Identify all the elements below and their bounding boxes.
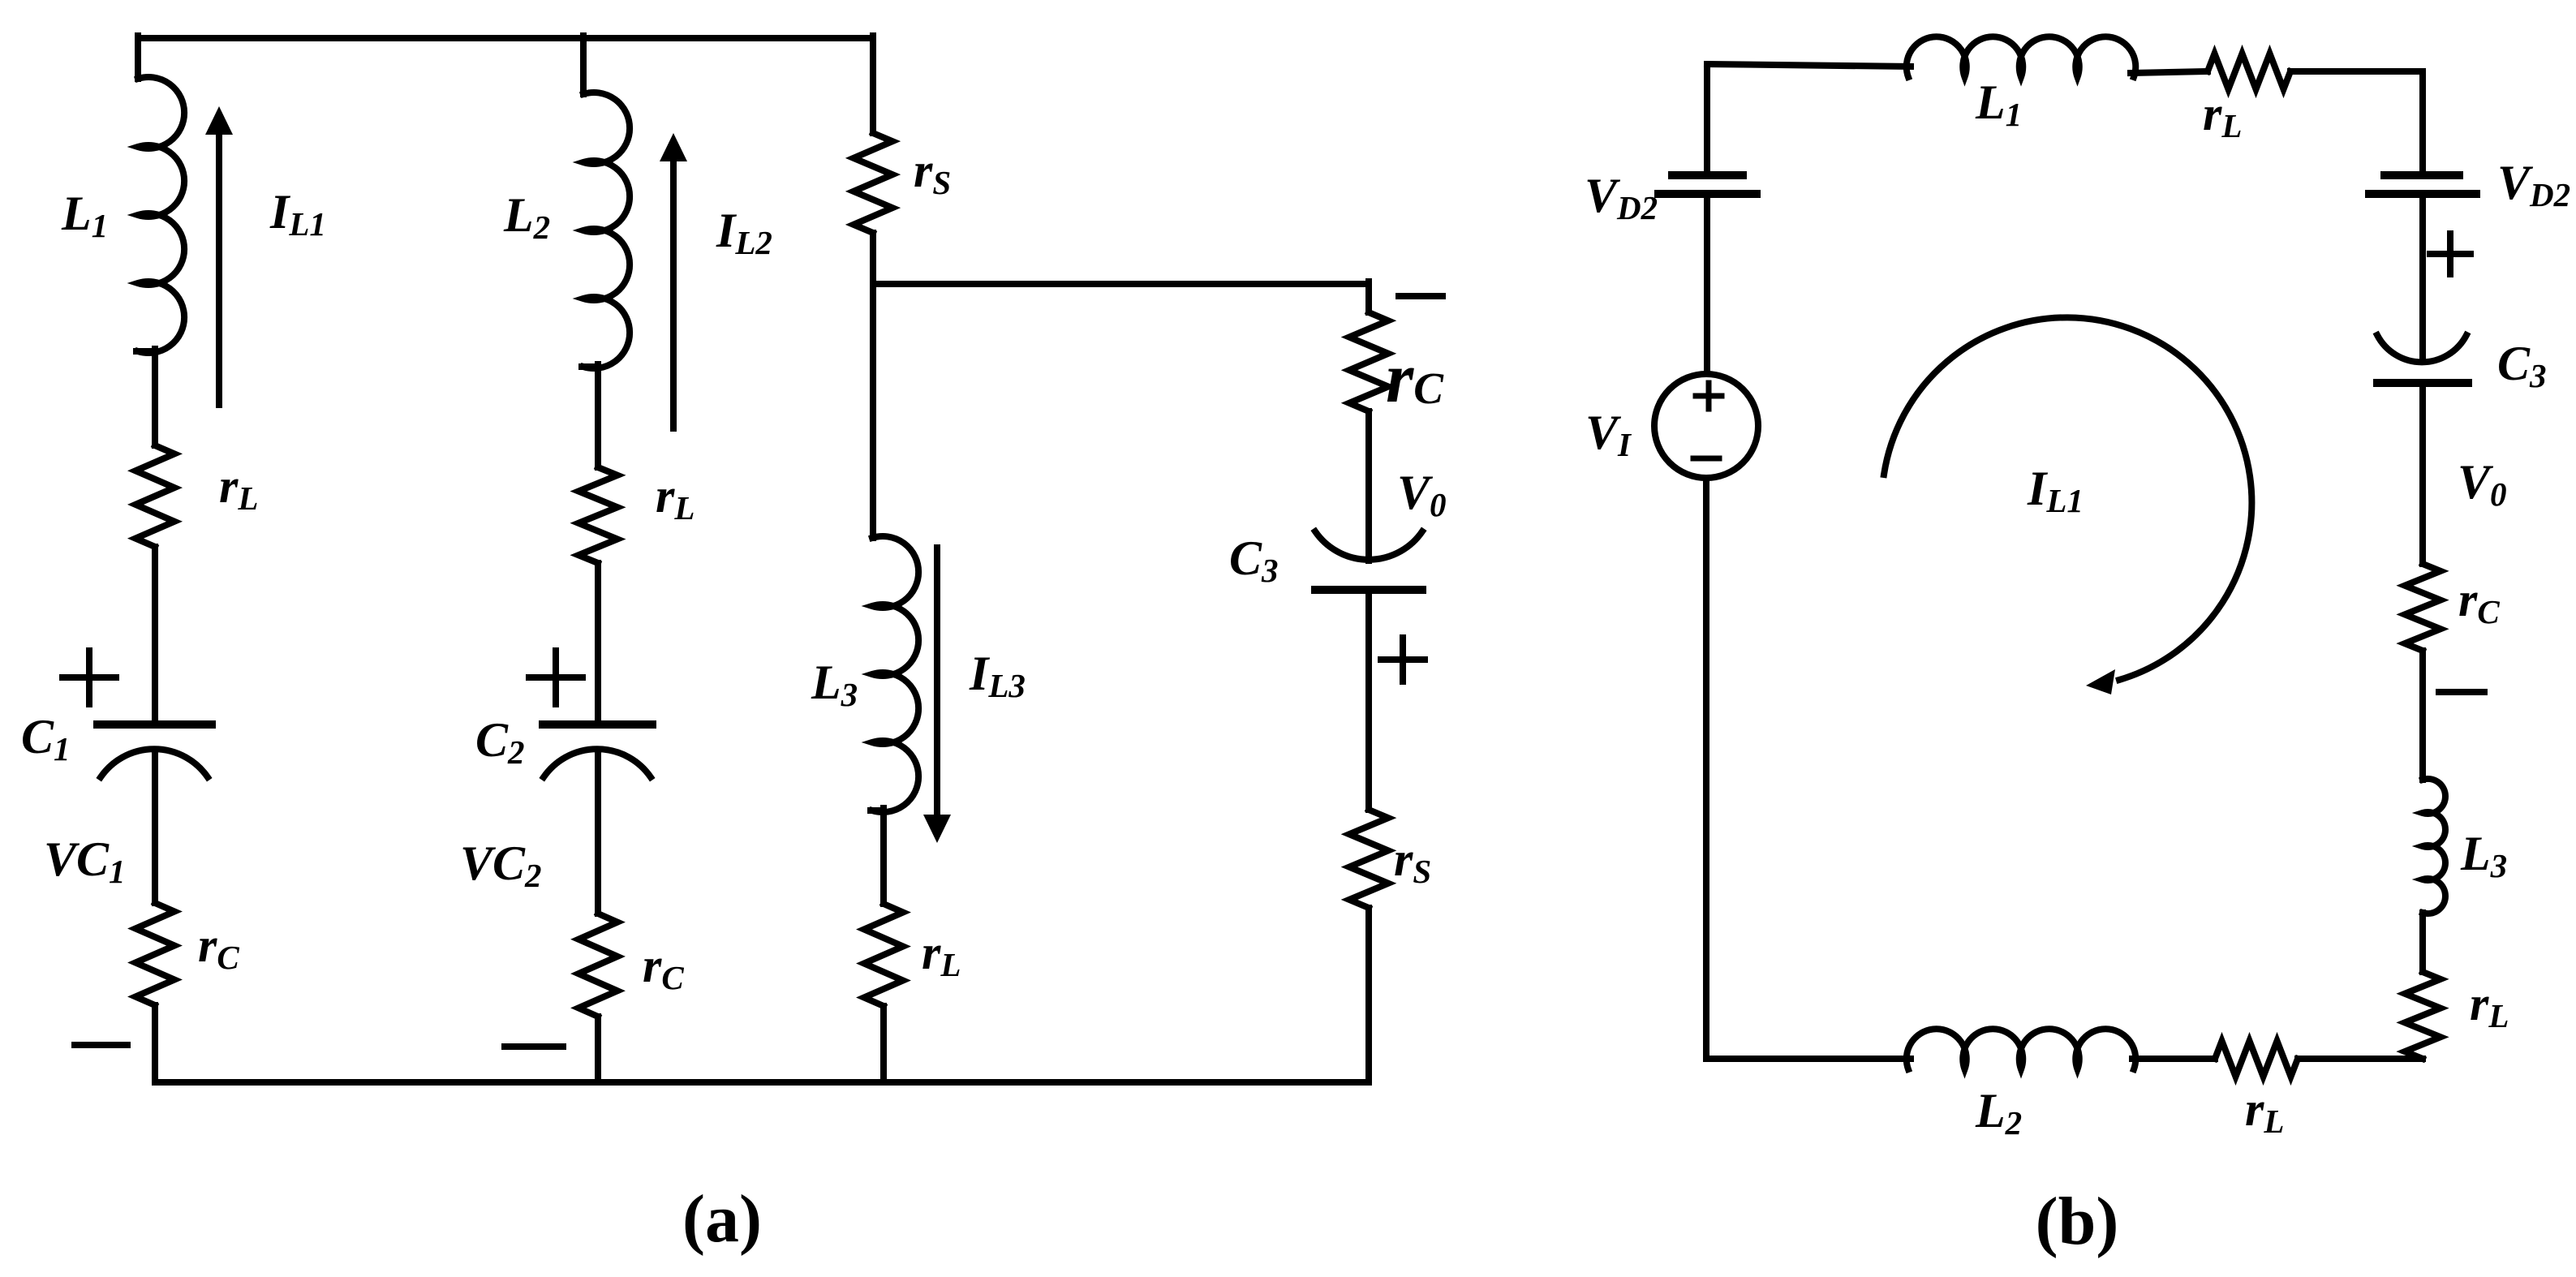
svg-text:L3: L3 (2460, 827, 2507, 884)
svg-text:rL: rL (656, 469, 695, 527)
wire: L2 bottom connector (582, 363, 598, 370)
source VI (1654, 374, 1758, 478)
wire: (b) bottom-left segment (1706, 1056, 1911, 1062)
wire: branch-1 mid (152, 547, 158, 724)
wire: (b) top-right segment (2290, 68, 2423, 75)
wire: branch-3 bottom (880, 1006, 887, 1082)
plus sign (C2) (529, 651, 583, 704)
svg-text:rC: rC (2458, 573, 2500, 630)
svg-text:V0: V0 (2458, 455, 2507, 513)
svg-text:rC: rC (643, 939, 684, 996)
wire: (b) right upper (2419, 71, 2426, 175)
wire: branch-3 lower (880, 808, 887, 904)
svg-text:rL: rL (2245, 1082, 2284, 1140)
wire: L3 bottom connector (871, 807, 884, 814)
svg-text:L2: L2 (503, 188, 550, 246)
wire: figure (a) top rail (138, 35, 873, 41)
arrow IL3 (current direction) (923, 548, 951, 843)
wire: output mid (1365, 590, 1372, 810)
svg-text:L2: L2 (1975, 1084, 2022, 1142)
battery VD2 (left) (1658, 175, 1757, 194)
svg-text:VC1: VC1 (44, 832, 126, 890)
svg-text:L3: L3 (811, 656, 858, 713)
inductor L1 (b) (1907, 37, 2136, 77)
svg-text:rL: rL (219, 459, 258, 517)
wire: (b) right below rC (2419, 651, 2426, 780)
svg-text:rL: rL (2470, 977, 2509, 1034)
wire: (b) left mid (1704, 194, 1710, 374)
minus sign (branch 1) (75, 1042, 127, 1048)
plus sign (b right) (2430, 234, 2471, 274)
wire: branch-1 bottom (152, 1005, 158, 1082)
svg-text:VC2: VC2 (460, 836, 542, 894)
svg-text:C3: C3 (2497, 337, 2547, 394)
capacitor C3 (a) (1315, 531, 1422, 590)
wire: branch-2 mid (595, 563, 601, 724)
wire: branch-2 bottom (595, 1017, 601, 1082)
wire: (b) bottom between L2 and rL (2132, 1056, 2215, 1062)
inductor L3 (b) (2423, 779, 2445, 914)
resistor rL (branch 3) (864, 904, 903, 1006)
resistor rS (output) (1349, 810, 1388, 908)
capacitor C2 (543, 724, 652, 777)
wire: branch-2 upper (595, 364, 601, 467)
wire: branch-2 lower (595, 755, 601, 914)
svg-text:rS: rS (914, 144, 951, 201)
resistor rC (b) (2405, 564, 2441, 651)
svg-text:L1: L1 (1975, 75, 2022, 133)
resistor rL (branch 1) (135, 445, 174, 547)
wire: node to output branch (873, 281, 1369, 287)
svg-text:rC: rC (1386, 339, 1444, 418)
resistor rL (b bottom) (2215, 1041, 2298, 1077)
svg-text:rL: rL (2203, 87, 2242, 144)
svg-text:rL: rL (922, 926, 961, 983)
svg-text:C1: C1 (21, 710, 71, 767)
inductor L3 (872, 536, 918, 812)
wire: output bottom (1365, 908, 1372, 1082)
wire: branch-1 upper (152, 349, 158, 445)
resistor rS (branch 3) (854, 133, 892, 233)
wire: output upper (1365, 411, 1372, 561)
svg-text:VI: VI (1585, 406, 1632, 463)
resistor rC (output) (1349, 312, 1388, 411)
resistor rC (branch 2) (578, 914, 617, 1017)
capacitor C3 (b) (2377, 335, 2468, 383)
minus sign (b right) (2439, 689, 2484, 695)
resistor rL (b right) (2405, 972, 2441, 1059)
svg-text:C2: C2 (475, 713, 525, 771)
wire: (b) left upper (1704, 67, 1710, 175)
resistor rC (branch 1) (135, 903, 174, 1005)
battery VD2 (right) (2369, 175, 2476, 194)
svg-text:VD2: VD2 (2497, 156, 2570, 213)
svg-text:C3: C3 (1229, 531, 1279, 589)
svg-text:rS: rS (1394, 832, 1431, 890)
wire: (b) left lower (1703, 478, 1709, 1059)
svg-text:(a): (a) (682, 1181, 762, 1257)
wire: output branch top (1365, 282, 1372, 312)
inductor L2 (583, 92, 630, 368)
wire: (b) right mid (2419, 383, 2426, 564)
wire: branch-3 node stub (870, 233, 876, 284)
svg-text:V0: V0 (1397, 466, 1447, 523)
svg-text:rC: rC (198, 918, 239, 976)
arrow IL1 loop (b) (1884, 317, 2251, 694)
wire: L1 bottom connector (136, 348, 155, 355)
inductor L2 (b) (1907, 1029, 2136, 1069)
svg-text:VD2: VD2 (1585, 169, 1658, 226)
svg-text:IL3: IL3 (969, 647, 1026, 704)
plus sign (output) (1381, 638, 1425, 681)
wire: branch-3 top stub (870, 36, 876, 133)
inductor L1 (138, 77, 184, 353)
wire: branch-1 lower (152, 755, 158, 903)
wire: (b) top-left segment (1707, 64, 1911, 67)
svg-text:IL1: IL1 (2027, 462, 2084, 519)
arrow IL1 (current direction) (205, 106, 233, 405)
wire: (b) right below L3 (2419, 913, 2426, 972)
minus sign (output top) (1399, 293, 1443, 299)
svg-text:(b): (b) (2036, 1184, 2119, 1259)
svg-text:IL1: IL1 (269, 185, 326, 243)
wire: branch-3 below node (870, 282, 876, 538)
wire: figure (a) bottom rail (155, 1079, 1369, 1086)
arrow IL2 (current direction) (660, 133, 687, 428)
wire: branch-1 top stub (135, 36, 141, 79)
svg-text:L1: L1 (61, 187, 108, 244)
svg-text:IL2: IL2 (716, 204, 772, 261)
resistor rL (branch 2) (578, 467, 617, 563)
wire: branch-2 top stub (580, 36, 587, 94)
wire: (b) top between L1 and rL (2131, 71, 2208, 73)
plus sign (C1) (62, 651, 116, 704)
wire: (b) bottom-right segment (2298, 1056, 2423, 1062)
capacitor C1 (97, 724, 212, 777)
resistor rL (b top) (2208, 54, 2290, 89)
wire: (b) right upper2 (2419, 194, 2426, 362)
minus sign (branch 2) (505, 1043, 563, 1050)
